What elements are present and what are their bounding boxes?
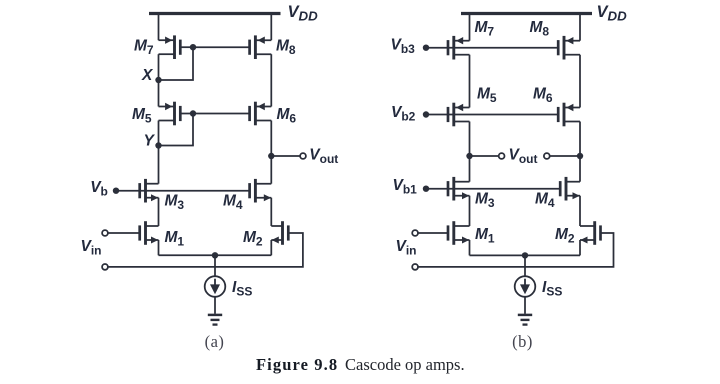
transistor M3 (b) NMOS <box>448 177 470 201</box>
svg-text:X: X <box>141 67 154 84</box>
wire M4 source to M2 drain (b) <box>579 196 581 226</box>
wire tail to current source (b) <box>524 255 526 276</box>
transistor M5 (a) PMOS <box>159 102 181 126</box>
node X dot (a) <box>155 77 161 83</box>
wire gate junction down to node X (a) <box>159 47 194 80</box>
terminal dot Vb3 (b) <box>423 45 429 51</box>
transistor M1 (b) NMOS <box>448 221 470 245</box>
wire M4 source to M2 drain (a) <box>270 198 272 226</box>
open terminal Vin upper (b) <box>412 230 418 236</box>
svg-text:VDD: VDD <box>288 3 319 24</box>
open terminal Vin upper (a) <box>102 230 108 236</box>
tail junction dot (b) <box>522 252 528 258</box>
current source ISS (b) <box>515 276 536 297</box>
svg-text:M5: M5 <box>477 85 497 105</box>
svg-text:ISS: ISS <box>542 279 562 299</box>
wire Vin terminal to M1 gate (a) <box>108 232 140 234</box>
transistor M3 (a) NMOS <box>140 179 159 203</box>
terminal dot Vb2 (b) <box>423 111 429 117</box>
transistor M7 (a) PMOS <box>159 35 181 59</box>
transistor M7 (b) PMOS <box>448 36 470 60</box>
svg-text:Vb2: Vb2 <box>391 104 416 124</box>
wire junction to M6 gate (a) <box>193 113 250 115</box>
wire VDD rail to M7 source (a) <box>158 14 160 41</box>
transistor M5 (b) PMOS <box>448 103 470 127</box>
transistor M2 (a) NMOS <box>271 221 288 245</box>
svg-text:M1: M1 <box>475 226 495 246</box>
transistor M8 (a) PMOS <box>250 35 272 59</box>
wire M5 gate to junction (a) <box>180 113 193 115</box>
wire Vb1 to M3 and M4 gates (b) <box>426 188 560 190</box>
wire lower Vin terminal to M2 gate (a) <box>108 233 303 267</box>
wire M2 source down to tail (a) <box>270 240 272 255</box>
open terminal Vout (a) <box>300 153 306 159</box>
transistor M4 (b) NMOS <box>560 177 580 201</box>
svg-text:VDD: VDD <box>597 3 628 24</box>
open terminal Vout-right (b) <box>544 153 550 159</box>
wire M5 drain through Vout-left node to M3 drain (b) <box>469 122 471 182</box>
open terminal Vout-left (b) <box>499 153 505 159</box>
svg-text:M6: M6 <box>533 85 553 105</box>
wire junction to M8 gate (a) <box>193 46 250 48</box>
svg-text:Vout: Vout <box>509 147 538 167</box>
transistor M6 (a) PMOS <box>250 102 272 126</box>
wire Vb2 to M5 and M6 gates (b) <box>426 114 558 116</box>
wire Vb3 to M7 and M8 gates (b) <box>426 47 558 49</box>
wire M7 drain to M5 source through X (a) <box>158 54 160 106</box>
transistor M8 (b) PMOS <box>558 36 580 60</box>
svg-text:M6: M6 <box>277 106 297 126</box>
wire M8 drain to M6 source (a) <box>270 54 272 106</box>
svg-text:M4: M4 <box>223 192 243 212</box>
junction dot M7/M8 gates (a) <box>190 44 196 50</box>
node Vout-right dot (b) <box>577 153 583 159</box>
svg-text:ISS: ISS <box>232 279 252 299</box>
svg-text:M8: M8 <box>530 19 550 39</box>
wire M1 source down to tail (a) <box>158 240 160 255</box>
wire Vout node to terminal (a) <box>271 155 300 157</box>
svg-text:Vb3: Vb3 <box>391 37 416 57</box>
svg-text:Figure 9.8: Figure 9.8 <box>256 355 338 374</box>
node Y dot (a) <box>155 142 161 148</box>
wire VDD rail to M8 source (a) <box>270 14 272 41</box>
wire VDD rail to M7 source (b) <box>469 14 471 41</box>
wire lower Vin terminal to M2 gate (b) <box>418 233 614 267</box>
svg-text:M4: M4 <box>535 190 555 210</box>
svg-text:M2: M2 <box>243 229 263 249</box>
wire Vb to M3 and M4 gates (a) <box>116 190 250 192</box>
wire M6 drain through Vout-right node to M4 drain (b) <box>579 122 581 182</box>
wire M3 source to M1 drain (a) <box>158 198 160 226</box>
wire M7 gate to junction (a) <box>180 46 193 48</box>
svg-text:M3: M3 <box>475 190 495 210</box>
tail junction dot (a) <box>212 252 218 258</box>
ground (a) <box>208 315 222 325</box>
open terminal Vin lower (b) <box>412 264 418 270</box>
svg-text:Y: Y <box>144 133 156 150</box>
current source ISS (a) <box>205 276 226 297</box>
VDD rail (b) <box>461 12 592 15</box>
tail wire (b) <box>470 254 581 256</box>
wire M7 drain to M5 source (b) <box>469 55 471 108</box>
svg-text:M5: M5 <box>132 106 152 126</box>
svg-text:Vb: Vb <box>90 179 108 199</box>
wire M6 drain to Vout node and M4 drain (a) <box>270 121 272 184</box>
wire Vin terminal to M1 gate (b) <box>418 232 448 234</box>
wire M3 source to M1 drain (b) <box>469 196 471 226</box>
ground (b) <box>518 315 532 325</box>
node Vout-left dot (b) <box>466 153 472 159</box>
wire current source to ground (b) <box>524 297 526 314</box>
wire gate junction down to node Y (a) <box>159 114 194 146</box>
tail wire (a) <box>159 254 272 256</box>
svg-text:(b): (b) <box>512 332 533 351</box>
svg-text:Vin: Vin <box>396 238 417 258</box>
wire tail to current source (a) <box>214 255 216 276</box>
wire current source to ground (a) <box>214 297 216 314</box>
svg-text:M7: M7 <box>134 38 154 58</box>
terminal dot Vb (a) <box>113 188 119 194</box>
svg-text:(a): (a) <box>205 332 225 351</box>
node Vout dot (a) <box>268 153 274 159</box>
VDD rail (a) <box>149 12 281 15</box>
terminal dot Vb1 (b) <box>423 186 429 192</box>
transistor M2 (b) NMOS <box>580 221 601 245</box>
svg-text:Vin: Vin <box>81 238 102 258</box>
svg-text:M3: M3 <box>165 192 185 212</box>
svg-text:Vb1: Vb1 <box>393 177 418 197</box>
wire M8 drain to M6 source (b) <box>579 55 581 108</box>
transistor M4 (a) NMOS <box>250 179 272 203</box>
svg-text:M8: M8 <box>276 38 296 58</box>
transistor M1 (a) NMOS <box>140 221 159 245</box>
svg-text:Cascode op amps.: Cascode op amps. <box>345 355 465 374</box>
svg-text:M7: M7 <box>475 19 495 39</box>
wire VDD rail to M8 source (b) <box>579 14 581 41</box>
wire Vout-left node to terminal (b) <box>470 155 499 157</box>
wire M5 drain to M3 drain through Y (a) <box>158 121 160 184</box>
svg-text:M2: M2 <box>555 226 575 246</box>
wire M2 source down to tail (b) <box>579 240 581 255</box>
junction dot M5/M6 gates (a) <box>190 110 196 116</box>
svg-text:Vout: Vout <box>309 147 338 167</box>
svg-text:M1: M1 <box>165 229 185 249</box>
wire Vout-right terminal to node (b) <box>550 155 581 157</box>
wire M1 source down to tail (b) <box>469 240 471 255</box>
open terminal Vin lower (a) <box>102 264 108 270</box>
transistor M6 (b) PMOS <box>558 103 580 127</box>
